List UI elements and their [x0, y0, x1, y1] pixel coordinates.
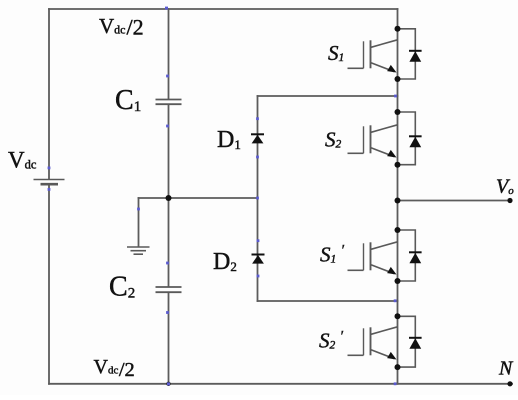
freewheel diode of S1	[398, 29, 422, 79]
wire: middle rail below C2	[168, 293, 170, 384]
ground	[127, 247, 150, 254]
wire: ground stub	[138, 198, 140, 247]
diode D2	[252, 255, 265, 264]
IGBT S2	[348, 125, 398, 157]
svg-text:N: N	[498, 358, 514, 380]
wire: bottom bus to N	[49, 383, 512, 385]
junction: S2' collector	[395, 313, 401, 319]
capacitor C1	[156, 100, 182, 105]
wire: top clamp connection	[258, 95, 398, 97]
wire: neutral midpoint horizontal	[139, 197, 258, 199]
wire: clamp diode string vertical	[257, 96, 259, 301]
wire: middle rail C1 to C2	[168, 105, 170, 287]
junction: S1 emitter	[395, 76, 401, 82]
junction: S2 collector	[395, 109, 401, 115]
arrow: S2 emitter	[387, 150, 396, 158]
node: N wire end	[507, 381, 512, 386]
arrow: S2' emitter	[387, 352, 396, 360]
anchor dots	[48, 7, 397, 386]
junction: middle rail to bottom bus	[166, 382, 170, 386]
arrow: S1 emitter	[387, 65, 396, 73]
IGBT S1	[348, 40, 398, 72]
wire: top DC bus	[49, 8, 398, 10]
junction: S1' emitter	[395, 278, 401, 284]
junction: S2 emitter	[395, 162, 401, 168]
IGBT S2'	[348, 327, 398, 359]
freewheel diode of S2	[398, 112, 422, 165]
capacitor C2	[156, 287, 182, 292]
wire: right switch rail	[397, 9, 399, 384]
wire: middle rail above C1	[168, 9, 170, 99]
freewheel diode of S2'	[398, 316, 422, 367]
junction: S1' collector	[395, 227, 401, 233]
arrow: S1' emitter	[387, 267, 396, 275]
battery Vdc	[34, 180, 65, 185]
junction: S2' emitter	[395, 364, 401, 370]
wire: output Vo	[398, 200, 512, 202]
node: Vo wire end	[507, 198, 512, 203]
wire: left rail upper segment	[48, 9, 50, 179]
IGBT S1'	[348, 242, 398, 274]
wire: bottom clamp connection	[258, 300, 398, 302]
wire: left rail lower segment	[48, 185, 50, 384]
junction: output node Vo	[395, 198, 401, 204]
diode D1	[251, 134, 264, 143]
freewheel diode of S1'	[398, 230, 422, 281]
junction: neutral point on middle rail	[166, 195, 172, 201]
junction: S1 collector	[395, 26, 401, 32]
